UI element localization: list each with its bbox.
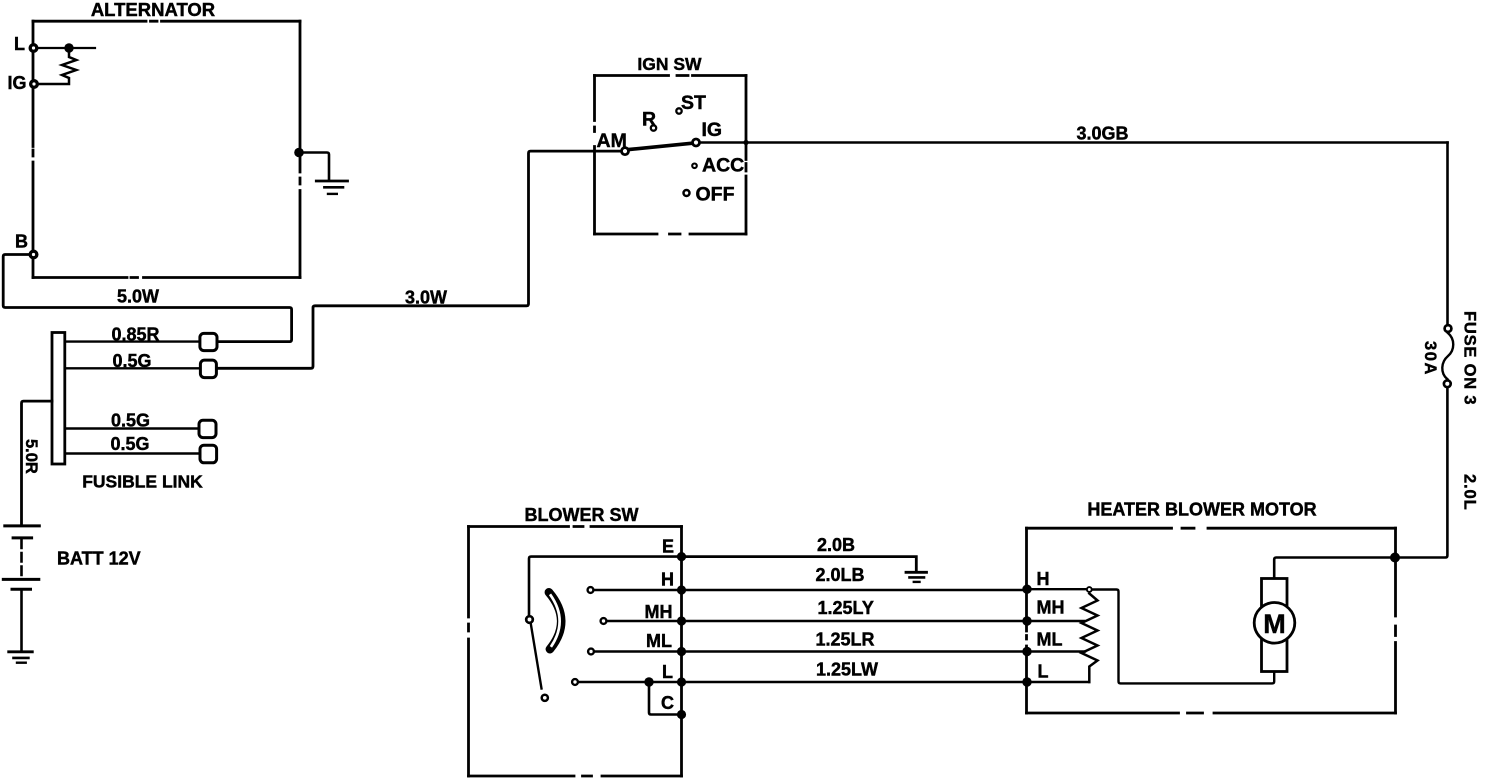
fuse FUSE ON 3 bbox=[1446, 143, 1449, 324]
wire L to resistor bottom bbox=[1032, 681, 1090, 683]
svg-text:ST: ST bbox=[681, 92, 706, 114]
wire H to resistor tap bbox=[1032, 588, 1086, 590]
contact IG bbox=[693, 139, 700, 146]
fusible link bar bbox=[52, 333, 65, 465]
svg-text:MH: MH bbox=[645, 602, 673, 622]
svg-text:FUSE ON 3: FUSE ON 3 bbox=[1461, 311, 1479, 405]
svg-text:1.25LR: 1.25LR bbox=[815, 630, 874, 650]
svg-text:M: M bbox=[1263, 609, 1286, 639]
switch lever bbox=[531, 624, 542, 689]
switch arm AM-IG bbox=[628, 143, 695, 150]
svg-text:0.85R: 0.85R bbox=[111, 325, 159, 345]
motor M bbox=[1262, 579, 1288, 672]
svg-text:L: L bbox=[14, 34, 25, 54]
resistor alternator internal bbox=[39, 53, 77, 84]
svg-text:5.0W: 5.0W bbox=[117, 287, 159, 307]
wire alternator to ground bbox=[299, 153, 329, 180]
contact R bbox=[651, 125, 656, 130]
svg-text:L: L bbox=[1038, 662, 1049, 682]
svg-text:OFF: OFF bbox=[696, 184, 735, 206]
wire ML internal with contact bbox=[595, 650, 682, 652]
svg-text:3.0W: 3.0W bbox=[405, 288, 447, 308]
wire 0.5G first bbox=[65, 367, 201, 369]
wire 0.85R bbox=[65, 340, 200, 342]
svg-text:0.5G: 0.5G bbox=[111, 411, 150, 431]
svg-text:B: B bbox=[15, 232, 28, 252]
svg-text:2.0B: 2.0B bbox=[817, 535, 855, 555]
connector 0.5G second bbox=[199, 420, 216, 437]
wire tap to motor bbox=[1093, 590, 1275, 684]
wire H internal with contact bbox=[595, 589, 682, 592]
svg-text:R: R bbox=[642, 109, 656, 131]
svg-text:ACC: ACC bbox=[702, 155, 744, 177]
connector 0.5G third bbox=[200, 445, 217, 463]
wire ML to resistor bbox=[1032, 650, 1085, 652]
ground alternator bbox=[316, 181, 347, 194]
node at ign box right edge bbox=[743, 140, 748, 145]
svg-text:30A: 30A bbox=[1421, 341, 1439, 376]
svg-text:FUSIBLE LINK: FUSIBLE LINK bbox=[82, 472, 203, 492]
switch lever contact circle bbox=[542, 695, 548, 701]
svg-text:L: L bbox=[662, 662, 673, 682]
svg-text:1.25LW: 1.25LW bbox=[816, 660, 878, 680]
ground 2.0B bbox=[906, 572, 927, 582]
svg-text:H: H bbox=[1037, 569, 1050, 589]
ign sw box bbox=[595, 76, 747, 235]
resistor tap circle bbox=[1087, 587, 1092, 592]
node L junction dot bbox=[64, 43, 73, 52]
svg-text:AM: AM bbox=[597, 130, 627, 152]
svg-text:IGN SW: IGN SW bbox=[637, 54, 702, 74]
svg-text:3.0GB: 3.0GB bbox=[1077, 124, 1129, 144]
wire L internal with contact bbox=[579, 681, 682, 683]
contact AM bbox=[622, 148, 629, 155]
node ground junction dot bbox=[294, 148, 304, 158]
contact ACC bbox=[692, 164, 697, 169]
wire 5.0W from B to fusible link bbox=[3, 255, 291, 342]
motor terminal dots bbox=[1022, 585, 1031, 594]
svg-text:BATT 12V: BATT 12V bbox=[57, 549, 141, 569]
svg-text:C: C bbox=[661, 693, 674, 713]
wire 3.0W from connector up to ignition switch AM bbox=[216, 151, 620, 368]
svg-text:H: H bbox=[661, 570, 674, 590]
alternator box bbox=[33, 21, 300, 277]
wire E internal bbox=[529, 557, 682, 616]
svg-text:HEATER BLOWER MOTOR: HEATER BLOWER MOTOR bbox=[1087, 500, 1316, 520]
connector 0.85R bbox=[200, 333, 217, 350]
wire 0.5G third bbox=[65, 452, 200, 454]
battery BATT 12V bbox=[3, 526, 39, 650]
svg-text:0.5G: 0.5G bbox=[112, 351, 151, 371]
node L-C junction bbox=[644, 677, 653, 686]
wire 3.0GB from IG to fuse bbox=[700, 141, 1447, 144]
wire 2.0B to ground bbox=[682, 557, 916, 571]
contact ST bbox=[676, 108, 681, 113]
svg-text:2.0L: 2.0L bbox=[1461, 474, 1479, 511]
switch wiper arc bbox=[549, 592, 561, 649]
wire 2.0LB bbox=[682, 589, 1027, 592]
wire C branch bbox=[649, 682, 682, 715]
svg-text:BLOWER SW: BLOWER SW bbox=[525, 505, 639, 525]
node junction heater box bbox=[1390, 553, 1400, 563]
connector 0.5G first bbox=[200, 360, 216, 378]
wire 1.25LW bbox=[682, 681, 1027, 683]
wire 1.25LY bbox=[682, 620, 1027, 622]
svg-text:ML: ML bbox=[646, 631, 672, 651]
terminal IG bbox=[31, 81, 38, 88]
wire 2.0L bbox=[1274, 388, 1447, 578]
blower terminal dots bbox=[677, 552, 686, 561]
svg-text:ML: ML bbox=[1037, 630, 1063, 650]
heater blower motor box bbox=[1027, 528, 1396, 713]
wire 1.25LR bbox=[682, 650, 1027, 652]
svg-text:IG: IG bbox=[8, 73, 27, 93]
svg-text:IG: IG bbox=[702, 119, 723, 141]
svg-text:ALTERNATOR: ALTERNATOR bbox=[91, 0, 215, 20]
svg-text:0.5G: 0.5G bbox=[110, 434, 149, 454]
blower sw box bbox=[469, 527, 682, 777]
svg-text:E: E bbox=[662, 537, 674, 557]
wire 5.0R to battery bbox=[22, 401, 53, 524]
wire L stub bbox=[38, 47, 95, 49]
svg-text:2.0LB: 2.0LB bbox=[815, 565, 864, 585]
wire MH to resistor bbox=[1032, 620, 1084, 622]
contact OFF bbox=[684, 190, 690, 196]
terminal B bbox=[30, 251, 37, 258]
terminal L bbox=[30, 45, 37, 52]
wire MH internal with contact bbox=[608, 620, 682, 622]
switch pivot bbox=[526, 616, 533, 623]
svg-text:1.25LY: 1.25LY bbox=[818, 598, 874, 618]
wire 0.5G second bbox=[65, 427, 199, 429]
svg-text:MH: MH bbox=[1037, 598, 1065, 618]
svg-text:5.0R: 5.0R bbox=[22, 439, 40, 474]
resistor blower bbox=[1082, 594, 1098, 683]
ground battery bbox=[9, 652, 33, 663]
